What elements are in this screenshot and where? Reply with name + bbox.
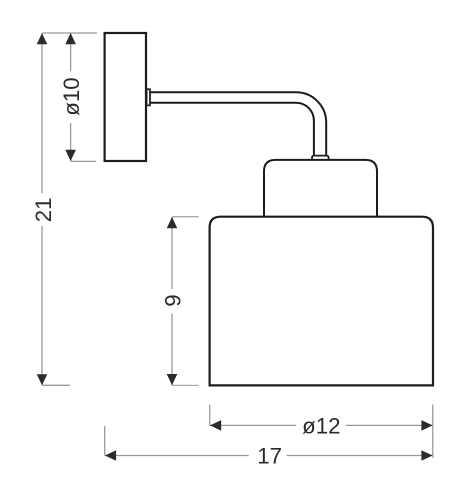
svg-text:9: 9 — [160, 294, 185, 306]
dim o12 left extension — [209, 405, 211, 426]
arm flange at plate — [147, 89, 150, 105]
svg-text:ø12: ø12 — [302, 413, 340, 438]
dim 21 line — [41, 33, 43, 385]
dim 9 extension top — [172, 216, 199, 218]
dim o12 line — [210, 424, 433, 426]
arm tube — [150, 92, 326, 156]
dim 21 arrow down — [37, 374, 48, 385]
dim o10 line — [70, 33, 72, 161]
dim 9 arrow down — [167, 374, 178, 385]
dim 21 extension top — [42, 32, 97, 34]
dim 9 line — [171, 217, 173, 385]
svg-text:ø10: ø10 — [59, 77, 84, 115]
dim 17 line — [105, 455, 433, 457]
dim 17 left extension — [104, 426, 106, 455]
dim o12 arrow left — [210, 420, 221, 431]
dim o10 arrow up — [65, 33, 76, 44]
dim 21 extension bottom — [42, 384, 70, 386]
svg-text:21: 21 — [31, 197, 56, 222]
wall mount plate — [105, 33, 146, 161]
dim o12/17 right extension — [432, 404, 434, 457]
dim 17 arrow left — [105, 450, 116, 461]
lamp shade — [210, 217, 433, 386]
dim 9 arrow up — [167, 217, 178, 228]
dim o12 arrow right — [421, 420, 432, 431]
arm bottom flange — [312, 156, 329, 161]
dim 9 extension bottom — [172, 384, 199, 386]
dim 17 arrow right — [421, 450, 432, 461]
lamp holder box — [264, 160, 377, 217]
dim o10 extension bottom — [71, 160, 96, 162]
dim o10 arrow down — [65, 150, 76, 161]
dim 21 arrow up — [37, 33, 48, 44]
svg-text:17: 17 — [257, 443, 282, 468]
